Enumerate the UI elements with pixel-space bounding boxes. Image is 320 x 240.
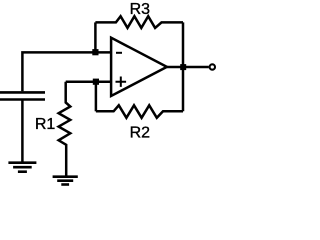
svg-text:R3: R3	[130, 1, 151, 18]
svg-text:R2: R2	[130, 125, 151, 142]
svg-text:R1: R1	[35, 116, 56, 133]
